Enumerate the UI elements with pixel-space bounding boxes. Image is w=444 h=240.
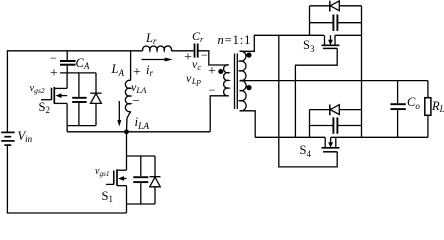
wire right vertical S3S4 bbox=[361, 6, 363, 138]
label Lr bbox=[146, 32, 156, 45]
transistor S3 bbox=[322, 35, 340, 48]
wire S4 gate loop bbox=[279, 137, 337, 167]
label minus vLp bbox=[209, 84, 216, 96]
node secondary dot bottom bbox=[246, 85, 251, 90]
transformer secondary top winding bbox=[240, 51, 246, 81]
label vLp bbox=[186, 72, 201, 84]
label Cr bbox=[192, 30, 203, 42]
label minus vLA bbox=[133, 94, 140, 107]
label iLA bbox=[135, 115, 150, 129]
wire S3 loop left vertical bbox=[309, 6, 311, 36]
label S4 bbox=[300, 144, 311, 157]
transistor S1 bbox=[106, 169, 127, 213]
capacitor parallel S3 bbox=[310, 15, 362, 31]
current arrow ir bbox=[142, 58, 173, 62]
current arrow iLA bbox=[117, 101, 121, 127]
transformer secondary bottom winding bbox=[240, 80, 247, 111]
label minus CA bbox=[50, 52, 57, 64]
node primary dot bbox=[218, 69, 223, 74]
transistor S4 bbox=[322, 137, 340, 152]
label vLA bbox=[131, 81, 146, 93]
wire secondary bottom bbox=[240, 111, 256, 138]
inductor LA bbox=[125, 51, 130, 132]
transformer primary winding bbox=[224, 65, 229, 96]
label LA bbox=[112, 63, 124, 76]
wire bottom rail bbox=[7, 212, 127, 214]
wire junction to S1 bbox=[126, 132, 128, 170]
capacitor snubber S2 bbox=[72, 73, 86, 126]
label vgs2 bbox=[30, 84, 45, 95]
label vgs1 bbox=[95, 167, 109, 177]
label S3 bbox=[303, 39, 314, 52]
wire S1-block bottom bbox=[127, 203, 156, 205]
label minus Cr bbox=[201, 49, 208, 61]
wire S3 gate bbox=[295, 48, 337, 137]
diode snubber S2 bbox=[90, 73, 101, 126]
label S2 bbox=[39, 101, 50, 114]
label n=1:1 bbox=[218, 34, 252, 47]
wire S2-block bottom bbox=[67, 125, 96, 127]
wire S1-block top bbox=[127, 155, 156, 157]
inductor Lr bbox=[143, 46, 172, 51]
label RL bbox=[432, 100, 444, 113]
transistor S2 bbox=[41, 73, 67, 126]
wire secondary center tap to output bbox=[240, 80, 428, 82]
capacitor parallel S4 bbox=[310, 117, 362, 133]
node junction LA bbox=[124, 129, 129, 134]
wire secondary top to S3 bbox=[240, 35, 324, 51]
wire Cr to primary top bbox=[199, 51, 229, 65]
label ir bbox=[146, 64, 153, 77]
label Co bbox=[407, 96, 420, 109]
wire S3 source to right bbox=[335, 34, 362, 36]
wire node iLA horizontal bbox=[67, 131, 210, 133]
capacitor snubber S1 bbox=[133, 156, 148, 204]
wire primary bottom return bbox=[210, 96, 229, 132]
wire vertical link S3 drain branch bbox=[278, 35, 280, 137]
battery Vin bbox=[1, 130, 14, 213]
node secondary dot top bbox=[246, 52, 251, 57]
label Vin bbox=[18, 130, 33, 143]
label CA bbox=[76, 57, 90, 70]
label vc bbox=[192, 58, 201, 70]
diode snubber S1 bbox=[150, 156, 161, 204]
wire Lr to Cr bbox=[171, 50, 193, 52]
resistor RL bbox=[425, 81, 431, 138]
diode antiparallel S4 bbox=[310, 105, 362, 116]
label S1 bbox=[102, 190, 113, 203]
label plus vLp bbox=[208, 65, 216, 79]
capacitor Co bbox=[390, 81, 405, 138]
capacitor CA bbox=[60, 51, 76, 73]
capacitor Cr bbox=[195, 44, 198, 58]
node S2-block top wire bbox=[60, 72, 96, 74]
label plus Cr bbox=[184, 51, 192, 65]
transformer core bbox=[235, 54, 238, 110]
wire main bottom horizontal bbox=[255, 136, 428, 138]
diode antiparallel S3 bbox=[310, 1, 362, 12]
wire S4 loop left vertical bbox=[309, 110, 311, 138]
label plus CA bbox=[50, 67, 58, 81]
wire top rail bbox=[7, 51, 142, 130]
label plus vLA bbox=[133, 66, 141, 80]
